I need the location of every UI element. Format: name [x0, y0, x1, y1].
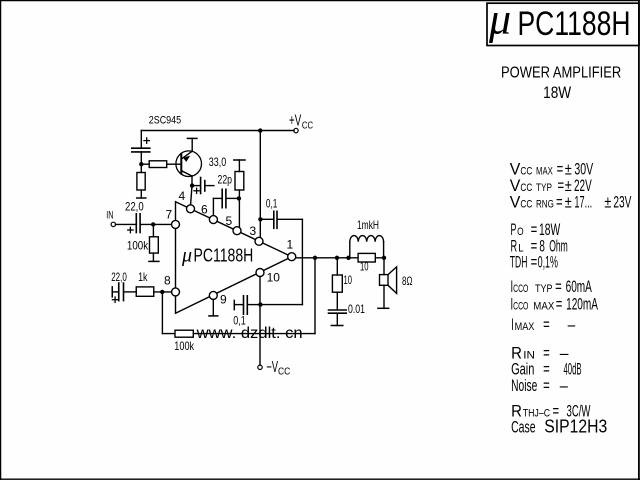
svg-text:V: V — [510, 177, 521, 195]
wire IN to C6 — [116, 223, 136, 225]
pin 6 — [209, 216, 217, 224]
svg-text:=: = — [543, 360, 550, 378]
svg-text:5: 5 — [226, 214, 233, 228]
wire C7 to R5 — [124, 291, 136, 293]
svg-text:μ: μ — [181, 245, 192, 267]
SCHEMATIC — [111, 128, 397, 369]
svg-text:4: 4 — [179, 189, 186, 203]
svg-text:8Ω: 8Ω — [402, 274, 413, 288]
svg-text:PC1188H: PC1188H — [194, 245, 254, 266]
wire feedback bottom — [162, 333, 315, 335]
svg-text:±: ± — [565, 194, 572, 212]
svg-text:–: – — [560, 377, 569, 395]
svg-text:P: P — [511, 221, 517, 239]
node base branch — [139, 162, 143, 166]
svg-text:IN: IN — [106, 210, 113, 222]
wire node to R1 — [141, 163, 149, 165]
svg-text:=: = — [543, 377, 550, 395]
capacitor C1 electrolytic plates — [132, 147, 150, 149]
svg-text:PC1188H: PC1188H — [518, 5, 631, 43]
svg-text:0,1: 0,1 — [266, 197, 278, 211]
node output right — [382, 256, 386, 260]
svg-text:MAX: MAX — [515, 321, 535, 333]
svg-text:CC: CC — [302, 120, 314, 132]
resistor R7 10 zobel — [336, 258, 338, 275]
pin 9 — [209, 291, 217, 299]
svg-text:CC: CC — [520, 199, 532, 211]
svg-text:CC: CC — [278, 366, 291, 378]
wire pin10 to -Vcc — [259, 277, 261, 366]
svg-text:I: I — [511, 316, 514, 334]
svg-text:O: O — [517, 226, 524, 238]
node output fb — [313, 256, 317, 260]
pin 4 — [187, 205, 195, 213]
wire output — [296, 257, 384, 259]
wire C6 to pin7 — [141, 223, 172, 225]
svg-text:=: = — [531, 221, 538, 239]
node 100k branch — [151, 222, 155, 226]
wire R5 to pin8 — [154, 291, 172, 293]
svg-text:MAX: MAX — [533, 301, 554, 313]
svg-text:2SC945: 2SC945 — [149, 115, 182, 127]
svg-text:Gain: Gain — [511, 360, 534, 378]
svg-text:7: 7 — [166, 207, 173, 221]
wire +Vcc riser to pin3 — [259, 131, 261, 238]
svg-text:33,0: 33,0 — [209, 155, 227, 169]
ground zobel — [331, 325, 343, 327]
capacitor C5 0,1 bottom — [248, 304, 260, 306]
wire feedback riser — [314, 258, 316, 334]
speaker LS1 — [380, 275, 389, 286]
svg-text:10: 10 — [267, 271, 281, 285]
terminal IN — [111, 222, 115, 226]
svg-text:=: = — [556, 296, 563, 314]
svg-text:22p: 22p — [218, 173, 233, 187]
svg-text:22,0: 22,0 — [111, 270, 127, 284]
svg-text:3: 3 — [250, 224, 257, 238]
wire bootstrap bottom horizontal — [260, 304, 302, 306]
svg-text:www. dzdlt. cn: www. dzdlt. cn — [196, 325, 303, 342]
wire R1 to base — [167, 163, 181, 165]
svg-text:CC: CC — [520, 166, 532, 178]
svg-text:MAX: MAX — [536, 166, 553, 178]
svg-text:1k: 1k — [138, 270, 148, 284]
pin 1 — [288, 253, 296, 261]
pin 3 — [255, 237, 263, 245]
svg-text:9: 9 — [220, 292, 227, 306]
svg-text:Noise: Noise — [511, 377, 537, 395]
capacitor C7 22,0 lower input — [111, 287, 113, 297]
svg-text:=: = — [531, 254, 538, 272]
pin 5 — [233, 227, 241, 235]
svg-text:22V: 22V — [574, 177, 592, 195]
svg-text:120mA: 120mA — [566, 296, 598, 314]
wire emitter to pin4 — [191, 186, 192, 205]
svg-text:0.01: 0.01 — [348, 302, 365, 316]
resistor R6 100k feedback — [175, 330, 193, 337]
resistor R3 33,0 branch — [234, 159, 245, 161]
svg-text:−V: −V — [266, 359, 278, 376]
svg-text:+V: +V — [289, 113, 302, 130]
resistor R1 base — [149, 161, 167, 168]
resistor R8 10 series — [358, 253, 375, 262]
svg-text:0,1%: 0,1% — [538, 254, 559, 272]
capacitor C4 0,1 top — [260, 218, 273, 220]
terminal +Vcc — [294, 128, 298, 132]
svg-text:TDH: TDH — [510, 254, 528, 272]
svg-text:=: = — [555, 278, 562, 296]
svg-text:10: 10 — [360, 260, 369, 274]
svg-text:1mkH: 1mkH — [357, 218, 379, 232]
transistor Q1 2SC945 — [176, 151, 202, 177]
spec Vcc MAX — [510, 161, 632, 437]
svg-text:10: 10 — [344, 273, 353, 287]
svg-text:40dB: 40dB — [564, 360, 582, 378]
svg-text:18W: 18W — [539, 221, 560, 239]
svg-text:8: 8 — [164, 273, 171, 287]
wire feedback down — [161, 292, 163, 334]
node 22p junction — [237, 196, 241, 200]
wire riser to C1 — [140, 131, 142, 148]
svg-text:TYP: TYP — [536, 182, 552, 194]
svg-text:=: = — [543, 316, 550, 334]
svg-text:±: ± — [565, 177, 572, 195]
op-amp U1 triangle — [176, 202, 292, 314]
resistor R5 1k — [136, 287, 154, 296]
wire +Vcc rail — [141, 130, 294, 132]
svg-text:100k: 100k — [174, 339, 195, 353]
inductor L1 1mkH — [349, 242, 351, 258]
wire bootstrap right vertical — [301, 219, 303, 304]
svg-text:100k: 100k — [127, 239, 149, 253]
svg-text:=: = — [557, 161, 564, 179]
svg-text:SIP12H3: SIP12H3 — [544, 416, 607, 437]
node junction rail/riser — [258, 128, 262, 132]
svg-text:30V: 30V — [574, 161, 593, 179]
ground pin9 — [212, 299, 214, 316]
node bootstrap top — [258, 217, 262, 221]
svg-text:Case: Case — [511, 419, 535, 437]
wire output to speaker — [383, 258, 385, 275]
svg-text:CC: CC — [520, 182, 532, 194]
node output zobel — [335, 256, 339, 260]
svg-text:CCO: CCO — [513, 283, 528, 295]
pin 8 — [172, 288, 180, 296]
ground speaker — [378, 307, 389, 309]
capacitor C6 22,0 input — [135, 214, 137, 233]
svg-text:22,0: 22,0 — [125, 200, 144, 214]
resistor R2 below C1 — [140, 164, 142, 172]
title box — [487, 3, 639, 45]
svg-text:TYP: TYP — [535, 283, 553, 295]
node feedback branch — [160, 290, 164, 294]
svg-text:μ: μ — [488, 0, 511, 44]
svg-text:V: V — [510, 161, 521, 179]
capacitor C8 0.01 — [329, 309, 347, 311]
svg-text:=: = — [558, 177, 565, 195]
svg-text:CCO: CCO — [513, 301, 528, 313]
svg-text:=: = — [556, 194, 563, 212]
node emitter junction — [190, 183, 194, 187]
pin 10 — [256, 269, 264, 277]
svg-text:–: – — [568, 316, 576, 334]
resistor R4 100k — [152, 224, 154, 236]
svg-text:V: V — [510, 194, 521, 212]
capacitor C3 22p — [227, 197, 239, 199]
pin 7 — [172, 220, 180, 228]
node output L left — [346, 256, 350, 260]
capacitor C2 33,0 — [192, 185, 200, 187]
wire C1 to node — [140, 152, 142, 164]
svg-text:±: ± — [565, 161, 572, 179]
svg-text:23V: 23V — [613, 194, 631, 212]
svg-text:RNG: RNG — [536, 199, 554, 211]
svg-text:17...: 17... — [574, 194, 592, 212]
svg-text:6: 6 — [201, 202, 208, 216]
svg-text:±: ± — [604, 194, 611, 212]
svg-text:60mA: 60mA — [566, 278, 592, 296]
svg-text:18W: 18W — [543, 84, 571, 102]
node pin10 line bottom — [258, 302, 262, 306]
svg-text:1: 1 — [287, 237, 294, 251]
terminal -Vcc — [258, 365, 262, 369]
svg-text:POWER AMPLIFIER: POWER AMPLIFIER — [501, 65, 621, 82]
